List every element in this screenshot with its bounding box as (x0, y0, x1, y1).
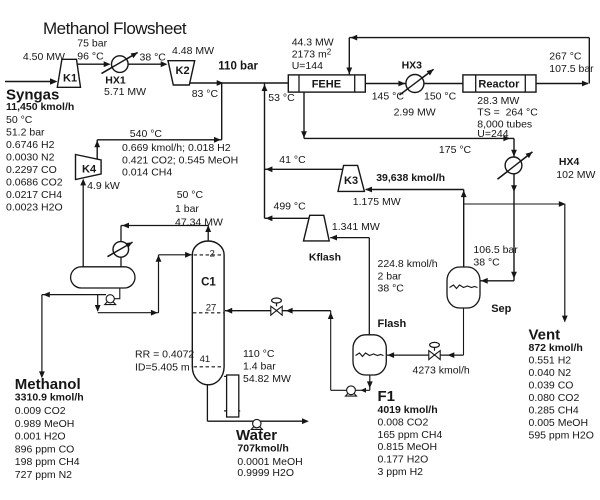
svg-text:HX3: HX3 (402, 60, 423, 72)
svg-text:4.9 kW: 4.9 kW (87, 180, 120, 192)
svg-text:Sep: Sep (491, 303, 511, 315)
svg-text:0.551 H2: 0.551 H2 (529, 355, 572, 367)
svg-text:0.0030 N2: 0.0030 N2 (6, 151, 55, 163)
svg-text:Methanol: Methanol (15, 376, 81, 393)
svg-text:4273 kmol/h: 4273 kmol/h (413, 365, 470, 377)
svg-text:TS = 264 °C: TS = 264 °C (477, 107, 538, 119)
svg-text:110 bar: 110 bar (218, 61, 258, 73)
svg-text:198 ppm CH4: 198 ppm CH4 (15, 456, 80, 468)
svg-text:106.5 bar: 106.5 bar (473, 244, 518, 256)
svg-text:RR = 0.4072: RR = 0.4072 (135, 349, 194, 361)
svg-text:Vent: Vent (529, 327, 561, 344)
svg-text:39,638 kmol/h: 39,638 kmol/h (376, 172, 445, 184)
svg-text:K4: K4 (82, 164, 97, 176)
svg-text:HX4: HX4 (559, 156, 580, 168)
svg-text:51.2 bar: 51.2 bar (6, 126, 45, 138)
svg-text:224.8 kmol/h: 224.8 kmol/h (378, 258, 438, 270)
svg-text:50 °C: 50 °C (6, 114, 33, 126)
svg-text:0.9999 H2O: 0.9999 H2O (237, 467, 294, 479)
svg-text:3310.9 kmol/h: 3310.9 kmol/h (15, 392, 84, 404)
svg-text:2173 m2: 2173 m2 (292, 47, 332, 60)
svg-text:0.285 CH4: 0.285 CH4 (529, 405, 579, 417)
svg-text:499 °C: 499 °C (274, 201, 307, 213)
svg-text:0.6746 H2: 0.6746 H2 (6, 139, 55, 151)
svg-text:1.175 MW: 1.175 MW (353, 196, 401, 208)
svg-text:3 ppm H2: 3 ppm H2 (378, 466, 424, 478)
svg-text:53 °C: 53 °C (268, 92, 295, 104)
svg-text:2.99 MW: 2.99 MW (394, 107, 436, 119)
svg-text:4.50 MW: 4.50 MW (23, 51, 65, 63)
svg-text:267 °C: 267 °C (549, 51, 582, 63)
svg-text:Methanol Flowsheet: Methanol Flowsheet (43, 19, 187, 38)
svg-text:K1: K1 (63, 73, 77, 85)
svg-text:0.008 CO2: 0.008 CO2 (378, 416, 429, 428)
svg-text:Flash: Flash (378, 318, 407, 330)
svg-text:41 °C: 41 °C (279, 154, 306, 166)
svg-text:28.3 MW: 28.3 MW (477, 95, 519, 107)
svg-text:27: 27 (206, 303, 217, 314)
svg-text:0.421 CO2; 0.545 MeOH: 0.421 CO2; 0.545 MeOH (122, 154, 238, 166)
svg-text:1 bar: 1 bar (175, 203, 199, 215)
svg-text:872 kmol/h: 872 kmol/h (529, 342, 583, 354)
svg-text:1.341 MW: 1.341 MW (332, 221, 380, 233)
svg-text:96 °C: 96 °C (77, 51, 104, 63)
svg-text:0.669 kmol/h; 0.018 H2: 0.669 kmol/h; 0.018 H2 (122, 142, 231, 154)
svg-text:0.014 CH4: 0.014 CH4 (122, 167, 172, 179)
svg-text:Reactor: Reactor (478, 79, 520, 91)
svg-text:110 °C: 110 °C (243, 348, 275, 360)
svg-text:175 °C: 175 °C (439, 144, 472, 156)
svg-text:Water: Water (236, 427, 277, 444)
svg-text:896 ppm CO: 896 ppm CO (15, 443, 75, 455)
svg-text:47.34 MW: 47.34 MW (175, 217, 223, 229)
svg-text:ID=5.405 m: ID=5.405 m (135, 362, 190, 374)
svg-text:4.48 MW: 4.48 MW (172, 45, 214, 57)
svg-text:0.001 H2O: 0.001 H2O (15, 431, 66, 443)
svg-text:K3: K3 (344, 175, 358, 187)
svg-text:0.2297 CO: 0.2297 CO (6, 164, 57, 176)
svg-text:41: 41 (200, 354, 211, 365)
svg-text:1.4 bar: 1.4 bar (243, 361, 276, 373)
svg-text:0.039 CO: 0.039 CO (529, 380, 574, 392)
svg-text:5.71 MW: 5.71 MW (104, 86, 146, 98)
svg-text:0.815 MeOH: 0.815 MeOH (378, 441, 438, 453)
svg-text:150 °C: 150 °C (424, 91, 457, 103)
svg-text:F1: F1 (378, 388, 396, 405)
svg-text:HX1: HX1 (105, 74, 126, 86)
svg-text:0.005 MeOH: 0.005 MeOH (529, 417, 589, 429)
svg-text:38 °C: 38 °C (378, 283, 405, 295)
svg-text:38 °C: 38 °C (473, 257, 500, 269)
svg-text:11,450 kmol/h: 11,450 kmol/h (6, 101, 74, 113)
svg-text:0.989 MeOH: 0.989 MeOH (15, 418, 75, 430)
svg-text:102 MW: 102 MW (556, 169, 595, 181)
svg-text:Kflash: Kflash (309, 252, 341, 264)
svg-text:0.0023 H2O: 0.0023 H2O (6, 201, 63, 213)
svg-text:0.0686 CO2: 0.0686 CO2 (6, 176, 63, 188)
svg-text:2 bar: 2 bar (378, 270, 402, 282)
svg-text:0.0001 MeOH: 0.0001 MeOH (237, 456, 302, 468)
svg-text:C1: C1 (201, 277, 216, 289)
svg-text:2: 2 (210, 249, 215, 260)
svg-text:83 °C: 83 °C (192, 88, 219, 100)
svg-text:4019 kmol/h: 4019 kmol/h (378, 404, 438, 416)
svg-text:75 bar: 75 bar (77, 38, 107, 50)
svg-text:50 °C: 50 °C (177, 189, 204, 201)
svg-text:595 ppm H2O: 595 ppm H2O (529, 430, 594, 442)
svg-text:0.040 N2: 0.040 N2 (529, 367, 572, 379)
svg-text:540 °C: 540 °C (130, 128, 163, 140)
svg-text:145 °C: 145 °C (372, 91, 405, 103)
svg-text:FEHE: FEHE (312, 79, 341, 91)
svg-text:727 ppm N2: 727 ppm N2 (15, 469, 72, 481)
svg-text:54.82 MW: 54.82 MW (243, 373, 291, 385)
svg-text:K2: K2 (176, 65, 190, 77)
svg-text:165 ppm CH4: 165 ppm CH4 (378, 429, 443, 441)
svg-text:0.177 H2O: 0.177 H2O (378, 454, 429, 466)
svg-text:0.080 CO2: 0.080 CO2 (529, 392, 580, 404)
svg-text:707kmol/h: 707kmol/h (237, 443, 288, 455)
svg-text:107.5 bar: 107.5 bar (549, 63, 594, 75)
svg-text:U=244: U=244 (477, 128, 508, 140)
svg-text:U=144: U=144 (292, 60, 323, 72)
svg-text:38 °C: 38 °C (140, 52, 167, 64)
svg-text:0.0217 CH4: 0.0217 CH4 (6, 189, 62, 201)
svg-text:0.009 CO2: 0.009 CO2 (15, 405, 66, 417)
